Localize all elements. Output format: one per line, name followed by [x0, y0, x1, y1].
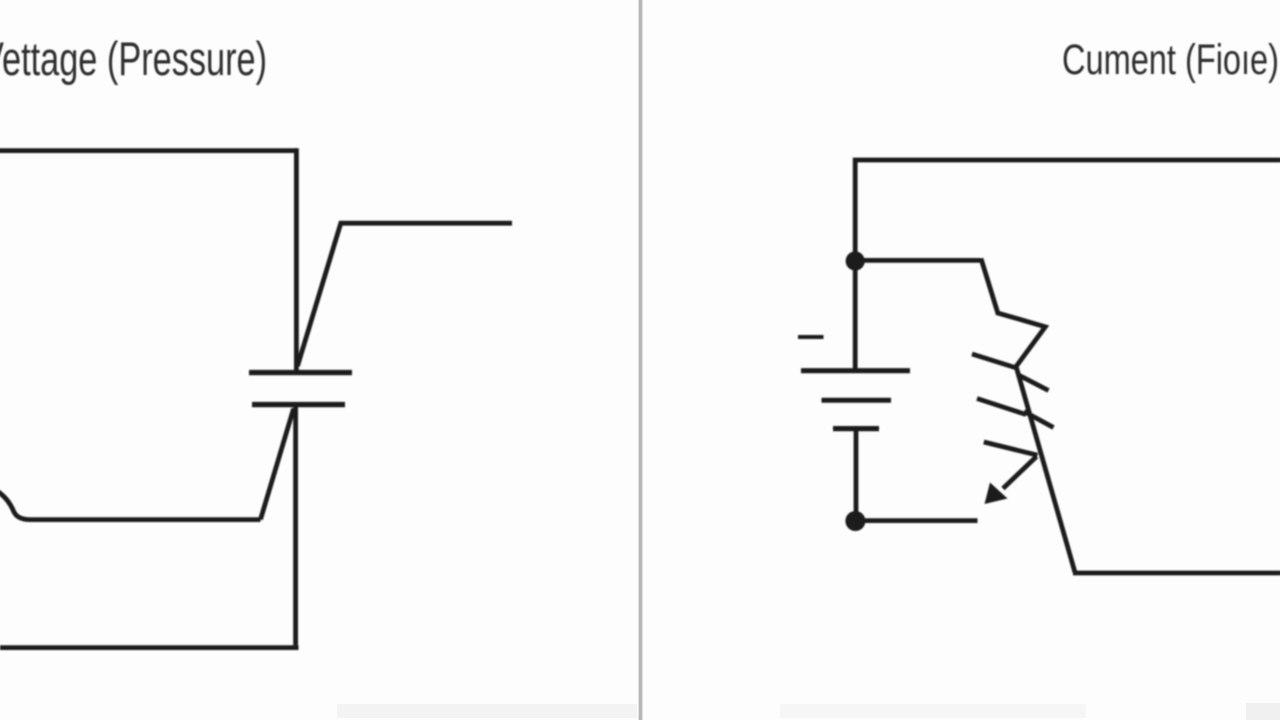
svg-text:Vettage (Pressure): Vettage (Pressure): [0, 32, 267, 85]
svg-text:Cument (Fioıe): Cument (Fioıe): [1062, 36, 1279, 84]
